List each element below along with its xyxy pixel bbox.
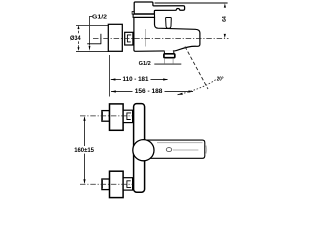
svg-text:110 - 181: 110 - 181 [123,76,150,83]
svg-text:156 - 188: 156 - 188 [135,89,163,95]
svg-text:20°: 20° [217,77,224,83]
svg-text:Ø34: Ø34 [70,36,81,42]
svg-text:G1/2: G1/2 [92,15,107,21]
svg-text:64: 64 [222,16,228,22]
svg-text:160±15: 160±15 [74,147,94,154]
svg-text:G1/2: G1/2 [139,61,151,67]
